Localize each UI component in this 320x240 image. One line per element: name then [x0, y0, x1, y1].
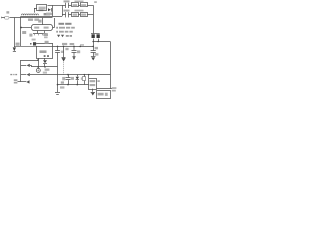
wire U3 gnd	[92, 89, 94, 92]
capacitor C3	[62, 3, 71, 8]
label under rail	[60, 86, 64, 88]
label C2 value	[32, 39, 36, 41]
label C8	[95, 47, 98, 49]
label R2	[75, 1, 84, 3]
note triangles	[57, 35, 64, 38]
connector J1 box	[97, 91, 111, 99]
wire bias left	[21, 60, 39, 82]
wire U1 left pin	[21, 27, 31, 29]
fuse F1	[5, 17, 9, 20]
label C2	[22, 31, 26, 34]
wire secondary rail	[30, 74, 110, 76]
capacitor C6	[57, 46, 59, 48]
capacitor C4	[62, 12, 71, 17]
capacitor C2	[33, 42, 36, 45]
ground	[55, 93, 60, 95]
wire output bottom	[97, 88, 113, 90]
capacitor C9	[67, 74, 69, 76]
capacitor C8	[92, 46, 94, 48]
label C3	[64, 0, 70, 2]
wire output node	[93, 39, 110, 42]
label F1	[6, 11, 9, 13]
U2 text	[40, 50, 47, 53]
node dot	[30, 43, 32, 45]
transformer T1 core	[21, 16, 62, 18]
wire U1 source pins	[33, 31, 47, 34]
wire left rail	[14, 18, 16, 48]
node junction	[20, 27, 22, 29]
transformer T1 primary winding	[21, 14, 38, 15]
wire right vertical	[93, 5, 95, 33]
wire clamp left	[34, 8, 37, 13]
diode D4 output	[97, 34, 100, 38]
diode D6	[43, 60, 47, 63]
transformer secondary marks	[44, 13, 50, 15]
wire AC neutral	[18, 81, 27, 83]
label D1	[46, 13, 52, 16]
ground	[91, 92, 95, 94]
optocoupler U2 box	[37, 47, 53, 59]
ground	[91, 56, 96, 58]
label R3	[75, 10, 84, 12]
diode D8	[26, 80, 29, 83]
wire drain node	[52, 5, 54, 16]
label C9	[62, 77, 65, 80]
wire rail primary gnd	[32, 66, 58, 68]
label pin5	[38, 20, 41, 23]
wire U1 right pin	[53, 18, 55, 28]
label Vout	[112, 87, 117, 89]
op-amp U1 box	[32, 25, 53, 31]
resistor R2b	[78, 5, 80, 7]
resistor R5	[84, 75, 86, 85]
note text row1	[59, 23, 65, 25]
wire R2 out	[87, 5, 93, 7]
label PE	[14, 79, 18, 81]
diode D5	[13, 47, 16, 51]
label L	[10, 74, 12, 75]
wire U1 drain pin	[42, 18, 44, 25]
resistor R3	[72, 13, 79, 17]
wire U2 bottom pin	[44, 58, 46, 60]
resistor R1 clamp box	[37, 5, 47, 11]
wire top rail	[48, 5, 63, 7]
diode D2	[21, 65, 32, 67]
note text row2	[56, 27, 58, 29]
ground C7	[72, 56, 75, 58]
note text row3	[56, 31, 58, 33]
wire AC input	[1, 17, 21, 19]
wire R3 out	[87, 14, 93, 16]
wire U2 cathode down	[38, 58, 40, 67]
diode D3 output	[91, 33, 100, 35]
wire U3 top pin	[88, 75, 90, 78]
wire feedback	[53, 46, 94, 48]
ground earth symbol	[38, 67, 40, 68]
wire output right	[110, 42, 112, 89]
label R4	[45, 41, 49, 44]
node junction	[37, 59, 39, 61]
label D5	[16, 43, 20, 46]
label source	[29, 34, 32, 37]
wire rail B	[58, 84, 89, 86]
U1 text	[34, 27, 39, 29]
label C7	[77, 50, 80, 53]
wire primary return	[20, 16, 22, 46]
pin ticks	[35, 34, 43, 36]
label VR1	[65, 48, 68, 50]
label minus	[97, 80, 99, 82]
resistor R3b	[78, 14, 80, 16]
label C4	[64, 10, 70, 12]
wire snubber tee	[62, 5, 64, 16]
label above clamp	[39, 9, 44, 11]
label T1	[28, 19, 33, 21]
diode D9	[77, 75, 79, 77]
wire C2 to U2	[36, 44, 53, 47]
capacitor C7	[73, 46, 75, 48]
wire to U2	[14, 45, 37, 47]
node dot	[79, 46, 81, 48]
regulator U3 box	[89, 79, 97, 90]
diode D7	[21, 74, 26, 76]
label gnd	[45, 69, 50, 71]
resistor R2	[72, 3, 79, 7]
label near node	[16, 44, 19, 46]
zener VR1	[63, 46, 65, 48]
label feedback	[62, 43, 67, 45]
diode D1	[48, 8, 51, 11]
